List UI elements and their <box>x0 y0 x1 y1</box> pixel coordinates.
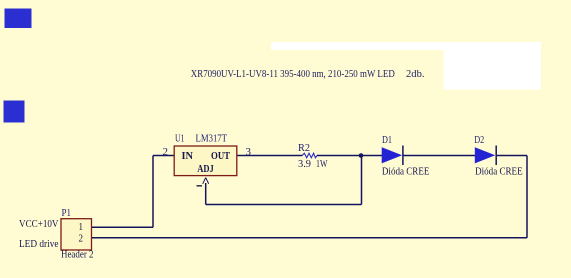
wire D2 cathode to right corner <box>497 155 527 157</box>
svg-text:IN: IN <box>182 150 194 162</box>
svg-text:D2: D2 <box>474 135 484 146</box>
diode D1 cathode bar <box>402 146 404 166</box>
diode D2 triangle <box>475 148 494 163</box>
white mask strip <box>271 42 541 50</box>
op-amp regulator U1 LM317T box <box>174 146 237 176</box>
svg-text:2db.: 2db. <box>406 68 425 80</box>
svg-text:2: 2 <box>79 233 84 244</box>
wire ADJ feedback vertical from junction <box>361 156 363 205</box>
svg-text:3.9: 3.9 <box>298 159 311 170</box>
diode D2 cathode bar <box>495 146 497 166</box>
ADJ pin1 dash mark <box>197 185 203 187</box>
svg-text:Dióda CREE: Dióda CREE <box>475 166 522 177</box>
svg-text:D1: D1 <box>382 135 392 146</box>
wire OUT pin to R2 <box>237 155 302 157</box>
svg-text:R2: R2 <box>298 143 310 154</box>
ADJ pin arrowhead <box>203 178 209 184</box>
svg-text:VCC+10V: VCC+10V <box>19 219 59 230</box>
wire ADJ feedback vertical to arrow <box>205 183 207 205</box>
wire riser to IN pin <box>153 155 174 157</box>
svg-text:XR7090UV-L1-UV8-11 395-400 nm,: XR7090UV-L1-UV8-11 395-400 nm, 210-250 m… <box>191 68 395 80</box>
svg-text:1W: 1W <box>316 159 328 170</box>
junction node after R2 <box>359 153 364 158</box>
connector P1 header box <box>61 219 92 250</box>
svg-text:LM317T: LM317T <box>196 133 228 144</box>
svg-text:3: 3 <box>246 147 252 158</box>
wire D1 cathode to D2 anode <box>404 155 476 157</box>
svg-text:U1: U1 <box>175 133 185 144</box>
svg-text:2: 2 <box>163 147 169 158</box>
wire right side vertical return <box>526 156 528 238</box>
svg-text:Dióda CREE: Dióda CREE <box>382 166 430 177</box>
diode D1 triangle <box>382 148 401 163</box>
svg-text:Header 2: Header 2 <box>61 249 94 260</box>
resistor R2 zigzag <box>302 153 317 158</box>
wire VCC vertical riser x153 <box>152 156 154 228</box>
svg-text:ADJ: ADJ <box>197 163 214 175</box>
svg-text:OUT: OUT <box>211 150 231 162</box>
svg-text:LED drive: LED drive <box>19 239 59 250</box>
wire header pin1 to riser <box>92 226 154 228</box>
wire ADJ feedback horizontal <box>206 204 362 206</box>
svg-text:1: 1 <box>79 222 84 233</box>
blue artifact box top-left <box>5 9 32 29</box>
wire R2 to junction and D1 <box>317 155 382 157</box>
white mask block <box>444 42 542 90</box>
svg-text:P1: P1 <box>62 208 72 219</box>
blue artifact box mid-left <box>4 101 25 123</box>
wire bottom return to header pin2 <box>92 237 528 239</box>
